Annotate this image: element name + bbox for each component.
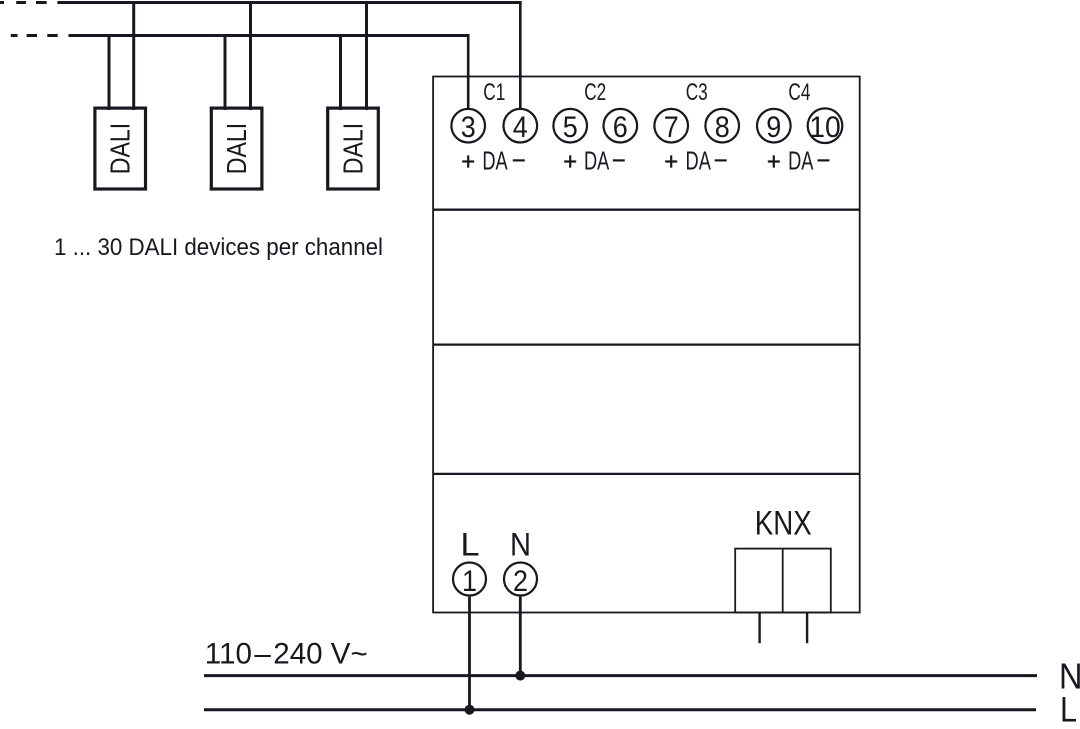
svg-text:7: 7: [664, 111, 679, 144]
svg-text:C1: C1: [483, 79, 505, 106]
svg-text:L: L: [461, 527, 480, 563]
svg-text:2: 2: [513, 565, 528, 598]
svg-text:8: 8: [715, 111, 730, 144]
svg-text:1 ... 30 DALI devices per chan: 1 ... 30 DALI devices per channel: [54, 234, 383, 261]
svg-text:DA: DA: [686, 145, 712, 175]
svg-text:1: 1: [462, 565, 477, 598]
svg-text:6: 6: [613, 111, 628, 144]
svg-text:DALI: DALI: [105, 123, 136, 175]
svg-text:3: 3: [461, 111, 476, 144]
svg-text:5: 5: [563, 111, 578, 144]
svg-text:C2: C2: [584, 79, 606, 106]
svg-text:DA: DA: [584, 145, 610, 175]
svg-text:N: N: [510, 527, 531, 563]
svg-text:DALI: DALI: [338, 123, 369, 175]
svg-text:9: 9: [766, 111, 781, 144]
svg-text:DA: DA: [788, 145, 814, 175]
svg-text:110 – 240 V~: 110 – 240 V~: [205, 637, 368, 670]
svg-text:KNX: KNX: [755, 505, 812, 543]
svg-text:DALI: DALI: [221, 123, 252, 175]
svg-text:C3: C3: [686, 79, 708, 106]
svg-text:10: 10: [809, 111, 841, 144]
svg-text:C4: C4: [788, 79, 810, 106]
svg-text:DA: DA: [482, 145, 508, 175]
svg-text:4: 4: [513, 111, 528, 144]
svg-text:L: L: [1060, 691, 1077, 729]
